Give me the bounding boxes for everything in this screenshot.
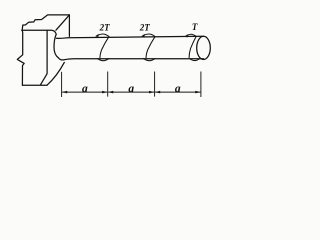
svg-text:2T: 2T — [99, 22, 111, 32]
dimension line segment 2 — [108, 91, 154, 93]
svg-text:a: a — [82, 83, 88, 95]
dimension extension tick at wall — [61, 72, 63, 97]
dimension line segment 3 — [155, 91, 200, 93]
dimension extension tick 2 — [107, 72, 109, 97]
svg-text:2T: 2T — [139, 22, 151, 32]
wall block: front bottom edge — [22, 84, 47, 86]
dimension extension tick 3 — [154, 72, 156, 97]
torque arrow 1 arrowhead — [95, 34, 98, 37]
dim arrow seg1 left — [62, 91, 67, 94]
dimension line segment 1 — [62, 91, 107, 93]
torque arrow 3 (T) curved stroke around shaft — [187, 34, 200, 60]
torque arrow 2 arrowhead — [141, 34, 144, 37]
wall block: right-face bottom depth edge — [47, 62, 64, 85]
shaft: wall intersection ellipse arc — [54, 34, 58, 58]
torque arrow 1 (2T) curved stroke around shaft — [97, 34, 109, 61]
wall block: back-right vertical edge — [68, 15, 70, 37]
shaft: bottom silhouette line — [58, 58, 203, 60]
wall block: top-right depth edge (front-top-right to back-top-right) — [56, 15, 70, 30]
svg-text:a: a — [175, 83, 181, 95]
dim arrow seg3 left — [155, 91, 160, 94]
svg-text:T: T — [192, 22, 198, 32]
dimension extension tick at free end — [200, 72, 202, 98]
wall block: front top edge with rounded right corner into shaft-wall intersection — [22, 30, 57, 34]
dim arrow seg2 left — [108, 91, 113, 94]
svg-text:a: a — [128, 83, 134, 95]
dim arrow seg2 right — [149, 91, 154, 94]
shaft: top silhouette line — [56, 36, 203, 38]
shaft: right end cap ellipse — [197, 36, 211, 59]
torque arrow 2 (2T) curved stroke around shaft — [143, 34, 155, 61]
wall block: back top edge with jagged break steps — [22, 15, 69, 30]
dim arrow seg1 right — [102, 91, 107, 94]
dim arrow seg3 right — [195, 91, 200, 94]
torque arrow 3 arrowhead — [184, 34, 187, 37]
wall block: inner break edge (vertical crack with slanted tail) — [40, 30, 47, 85]
wall block: jagged front-left edge with notch — [17, 30, 24, 85]
